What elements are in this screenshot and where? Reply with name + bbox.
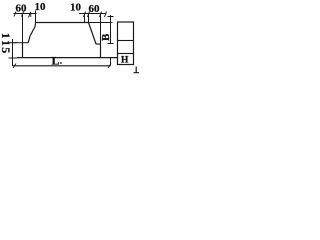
tick top-left c2 [30, 13, 32, 18]
svg-text:60: 60 [16, 3, 28, 15]
tick top-right a [84, 12, 86, 18]
extension line top-left corner [35, 11, 37, 23]
L dimension line [13, 65, 111, 67]
svg-text:1: 1 [0, 33, 13, 39]
svg-text:B: B [100, 33, 112, 41]
tick top-right c [100, 12, 102, 18]
base line [17, 57, 118, 59]
115 top tick [9, 42, 18, 44]
extension line right a [84, 14, 86, 23]
speck after L [60, 62, 62, 64]
right wall [100, 44, 102, 58]
corner mark foot [134, 72, 140, 74]
tick top-left c [29, 12, 31, 18]
table divider 1 [118, 40, 134, 42]
svg-text:10: 10 [70, 2, 82, 14]
dimension line top-right [79, 13, 106, 15]
left wall [22, 43, 24, 58]
extension line long left [22, 14, 24, 58]
extension line right long [100, 14, 102, 45]
tick top-left a [14, 12, 16, 17]
corner mark vertical [135, 67, 137, 73]
svg-text:L: L [52, 54, 60, 68]
left berm and 115 extension [13, 42, 28, 44]
crest top edge [36, 22, 89, 24]
svg-text:1: 1 [0, 40, 13, 46]
table divider 2 [118, 53, 134, 55]
B bottom tick [108, 43, 114, 45]
tick top-right b [88, 12, 90, 18]
L right tick [108, 64, 111, 69]
L left tick [13, 64, 16, 69]
left slope [28, 23, 35, 43]
tick top-right d [105, 12, 107, 18]
svg-text:60: 60 [89, 3, 101, 15]
115 dimension line [12, 39, 14, 66]
table box outline [118, 22, 134, 65]
L right hook [110, 58, 112, 66]
B dimension line [110, 15, 112, 44]
extension line top-right corner [88, 14, 90, 23]
tick top-left b [22, 12, 24, 17]
dimension line top-left [14, 13, 37, 15]
right berm [96, 43, 101, 45]
svg-text:5: 5 [0, 47, 13, 53]
B extension from crest [89, 22, 113, 24]
115 bottom tick [9, 57, 18, 59]
svg-text:10: 10 [35, 1, 47, 13]
right slope [89, 23, 97, 45]
svg-text:H: H [121, 56, 129, 66]
B top tick [108, 16, 114, 18]
